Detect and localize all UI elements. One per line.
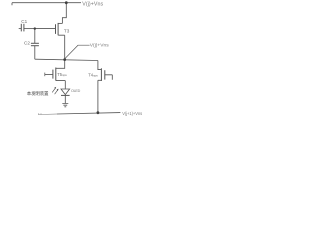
- svg-text:C2: C2: [24, 40, 30, 45]
- svg-text:OLED: OLED: [71, 89, 81, 93]
- svg-text:V(j)+Vns: V(j)+Vns: [82, 2, 103, 8]
- svg-text:T3: T3: [64, 28, 70, 33]
- svg-text:本发明装置: 本发明装置: [27, 90, 49, 97]
- svg-text:T4nps: T4nps: [88, 72, 98, 77]
- svg-text:T5nps: T5nps: [57, 72, 67, 77]
- svg-text:V(j+1)+Vns: V(j+1)+Vns: [122, 111, 142, 116]
- svg-text:C1: C1: [21, 19, 27, 24]
- svg-text:V(j)+Vns: V(j)+Vns: [90, 42, 109, 48]
